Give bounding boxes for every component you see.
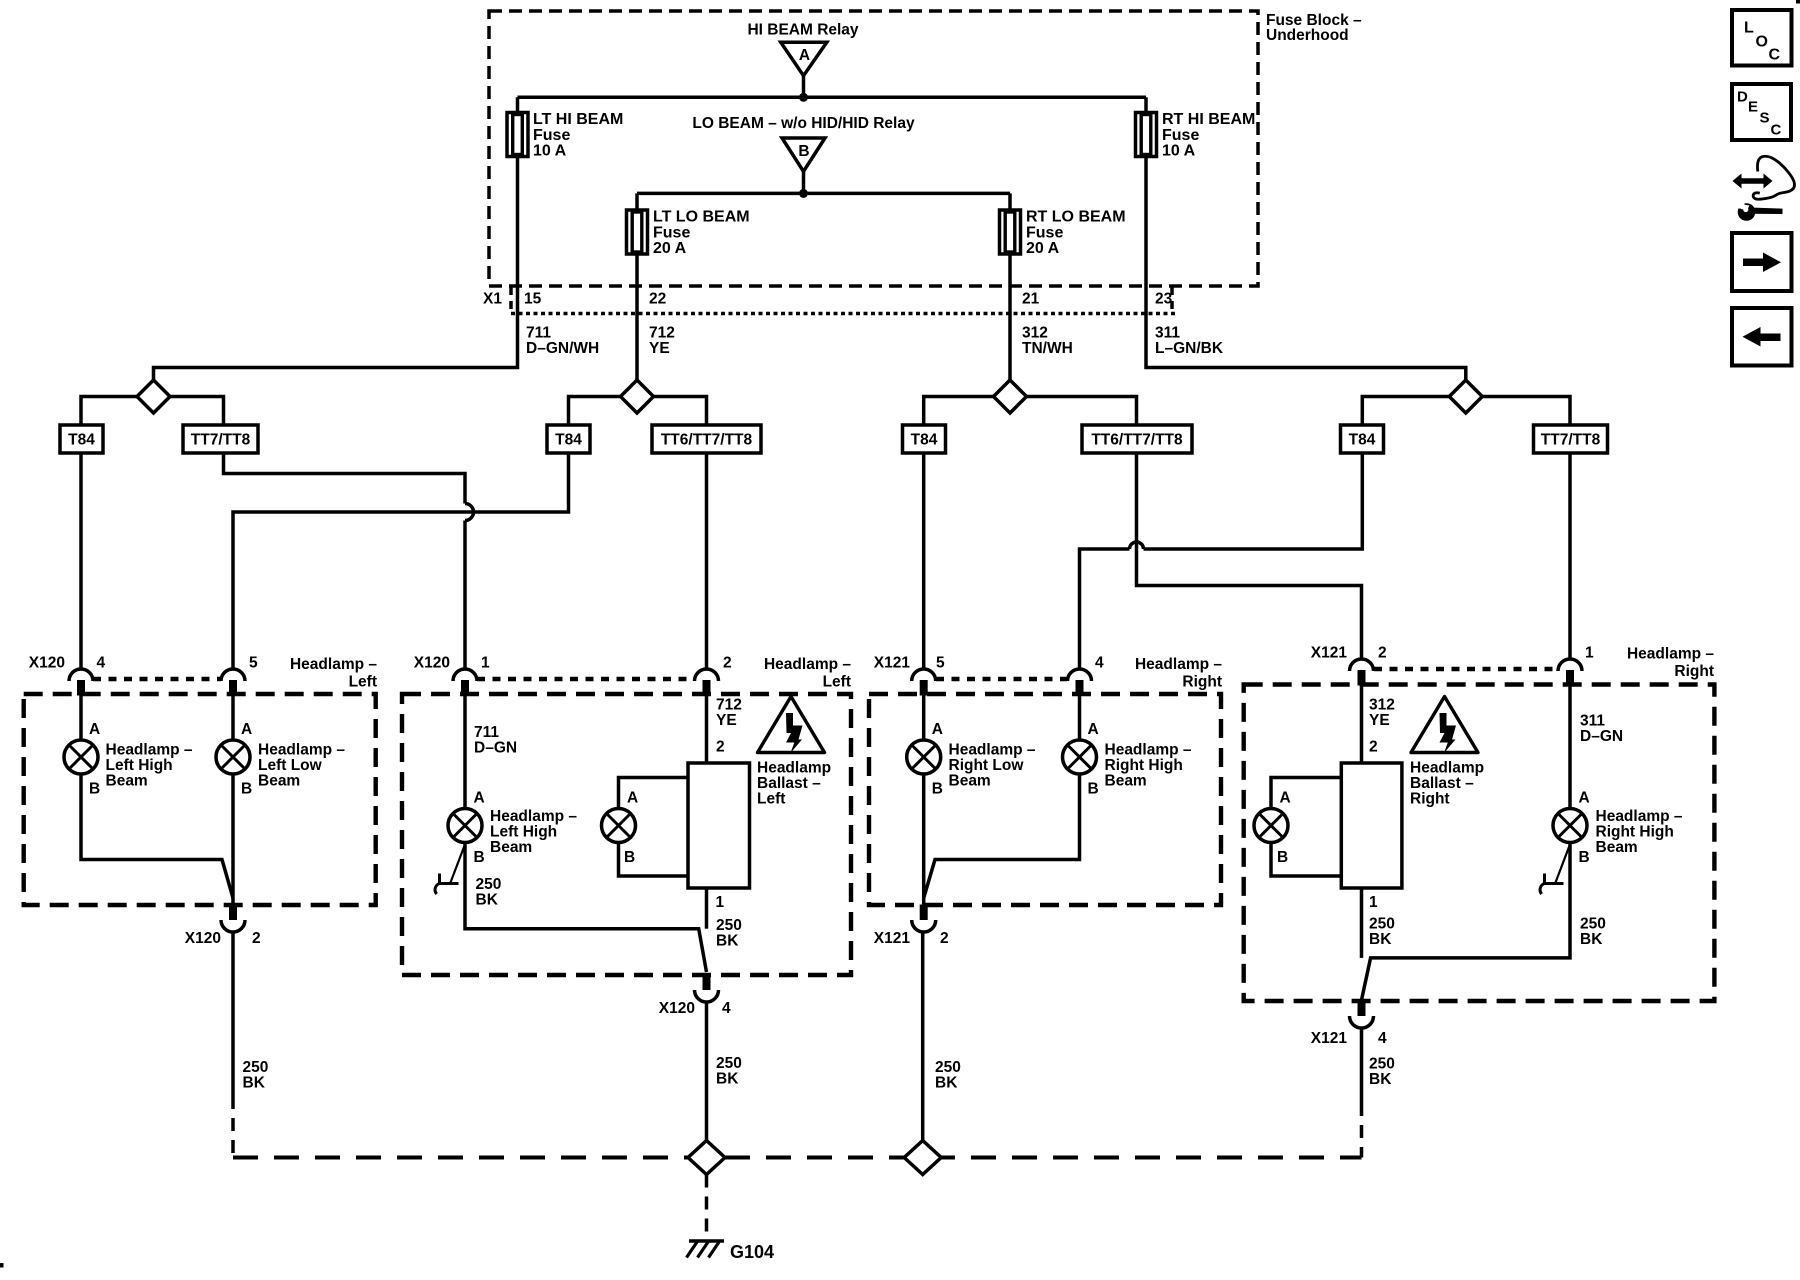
fuse RT HI BEAM 10 A — [1136, 113, 1157, 157]
connector dotted line X120 (row A) — [93, 677, 221, 682]
svg-text:Right Low: Right Low — [949, 757, 1025, 774]
connector X1 bracket right — [1170, 287, 1174, 313]
svg-text:LT LO BEAM: LT LO BEAM — [653, 209, 750, 226]
ballast label Headlamp Ballast Right — [1410, 760, 1484, 808]
wire 250 BK label (X120-2) — [243, 1059, 269, 1092]
ballast Headlamp Ballast Right — [1341, 763, 1402, 888]
svg-text:4: 4 — [722, 1000, 731, 1017]
svg-text:A: A — [474, 790, 485, 807]
warning triangle (right ballast) — [1411, 697, 1478, 754]
splice diamond 712 — [621, 380, 654, 413]
svg-text:O: O — [1756, 33, 1768, 50]
svg-text:Fuse: Fuse — [1162, 127, 1199, 144]
wire X121-2 ground lead — [921, 932, 925, 1141]
svg-text:X120: X120 — [185, 930, 221, 947]
fuse block underhood dashed box — [489, 11, 1258, 286]
svg-text:LT HI BEAM: LT HI BEAM — [533, 111, 623, 128]
svg-text:D–GN/WH: D–GN/WH — [526, 340, 599, 357]
svg-text:22: 22 — [649, 291, 666, 308]
svg-text:B: B — [932, 781, 943, 798]
wire hi-beam rail — [518, 96, 1147, 100]
wire 712 YE label — [649, 325, 675, 358]
svg-text:Beam: Beam — [949, 773, 991, 790]
svg-text:BK: BK — [476, 892, 499, 909]
branch box T84 (right high halogen) — [1341, 425, 1384, 453]
svg-text:5: 5 — [936, 655, 945, 672]
wire X120-2 dashed to ground bus — [231, 1096, 235, 1158]
wire 311 L-GN/BK label — [1155, 325, 1224, 358]
branch box T84 (left high halogen) — [60, 425, 103, 453]
svg-text:LO BEAM – w/o HID/HID Relay: LO BEAM – w/o HID/HID Relay — [692, 115, 915, 132]
svg-text:S: S — [1760, 110, 1770, 127]
branch box TT7/TT8 (right high HID) — [1534, 425, 1608, 453]
svg-text:1: 1 — [1585, 645, 1594, 662]
svg-text:A: A — [241, 721, 252, 738]
wire 250 BK label (left high lamp) — [476, 876, 502, 909]
svg-text:250: 250 — [716, 1055, 742, 1072]
svg-text:Headlamp –: Headlamp – — [290, 656, 377, 673]
svg-text:X1: X1 — [483, 291, 502, 308]
wire RT HI BEAM feed (fuse 23) — [1144, 97, 1148, 313]
svg-text:4: 4 — [97, 655, 106, 672]
fuse RT LO BEAM 20 A — [1000, 210, 1021, 254]
svg-text:4: 4 — [1378, 1030, 1387, 1047]
svg-text:Headlamp: Headlamp — [757, 760, 831, 777]
wire 311 to splice — [1146, 313, 1466, 381]
svg-text:B: B — [798, 143, 809, 160]
svg-text:Right High: Right High — [1596, 824, 1674, 841]
wire TT6/TT7/TT8 to connector X120-2 — [705, 453, 709, 669]
pigtail hook (left high lamp) — [435, 843, 465, 894]
lamp Headlamp Right High Beam (HID) — [1553, 809, 1587, 843]
svg-text:Left High: Left High — [490, 824, 557, 841]
icon LOC box — [1732, 10, 1792, 66]
svg-text:L–GN/BK: L–GN/BK — [1155, 340, 1224, 357]
svg-text:2: 2 — [940, 930, 949, 947]
component label Headlamp Left (box2) — [764, 656, 851, 691]
svg-text:Headlamp –: Headlamp – — [949, 742, 1036, 759]
svg-text:T84: T84 — [555, 432, 582, 449]
connector X121 pin 5 — [912, 669, 936, 696]
svg-text:2: 2 — [1378, 645, 1387, 662]
svg-text:Ballast –: Ballast – — [1410, 775, 1474, 792]
svg-text:YE: YE — [716, 712, 737, 729]
wire LT LO BEAM feed (fuse 22) — [635, 193, 639, 313]
connector X121 pin 2 (bottom) — [912, 905, 936, 933]
svg-text:L: L — [1744, 20, 1754, 37]
lamp Headlamp Left High Beam (HID) — [448, 809, 482, 843]
svg-text:311: 311 — [1155, 325, 1180, 342]
connector dotted line X121 (row D) — [1374, 667, 1558, 672]
svg-text:RT LO BEAM: RT LO BEAM — [1026, 209, 1126, 226]
wire 312 branch to T84 — [924, 397, 994, 426]
wire 711 branch to T84 left — [81, 397, 137, 426]
svg-text:312: 312 — [1022, 325, 1048, 342]
svg-text:A: A — [1088, 721, 1099, 738]
svg-text:B: B — [1579, 849, 1590, 866]
svg-text:T84: T84 — [68, 432, 95, 449]
wire 250 BK label (X121-2) — [935, 1059, 961, 1092]
wire 250 BK label (right high lamp) — [1580, 916, 1606, 949]
svg-text:Left High: Left High — [106, 757, 173, 774]
wire X120-4 ground lead — [705, 1002, 709, 1141]
lamp Headlamp Left Low Beam — [216, 740, 250, 774]
branch box TT7/TT8 (left high HID) — [183, 425, 258, 453]
wire LT HI BEAM feed (fuse 15) — [516, 97, 520, 313]
ballast label Headlamp Ballast Left — [757, 760, 831, 808]
relay contact A (HI BEAM Relay) — [781, 42, 827, 75]
wire 712 branch to T84 — [569, 397, 621, 426]
svg-text:2: 2 — [1369, 739, 1378, 756]
icon service wrench — [1735, 199, 1782, 220]
wire 312 branch to TT6/TT7/TT8 — [1027, 397, 1137, 426]
svg-text:YE: YE — [649, 340, 670, 357]
svg-text:312: 312 — [1369, 697, 1395, 714]
svg-text:711: 711 — [474, 724, 499, 741]
svg-text:Right High: Right High — [1105, 757, 1183, 774]
igniter lamp A wire (left ballast) — [619, 778, 689, 809]
svg-text:A: A — [1280, 790, 1291, 807]
svg-text:1: 1 — [481, 655, 490, 672]
lamp label Headlamp Left Low Beam — [258, 742, 345, 790]
wire 712 YE label (box2) — [716, 697, 742, 730]
svg-text:2: 2 — [716, 739, 725, 756]
pigtail hook (right high lamp) — [1540, 843, 1570, 894]
wire X121-4 dashed to ground bus — [1360, 1103, 1364, 1158]
wire left high beam B to low beam return — [81, 774, 233, 898]
wire X120-4 to left high beam lamp — [79, 695, 83, 740]
wire left high beam B to X120-4 — [465, 843, 707, 973]
svg-text:250: 250 — [716, 917, 742, 934]
warning triangle (left ballast) — [758, 697, 825, 754]
svg-text:2: 2 — [252, 930, 261, 947]
svg-text:BK: BK — [1369, 931, 1392, 948]
splice diamond 711 — [137, 380, 170, 413]
wire 311 branch to T84 — [1362, 397, 1449, 426]
svg-text:B: B — [1277, 849, 1288, 866]
splice diamond ground (right) — [904, 1141, 941, 1175]
svg-text:Headlamp –: Headlamp – — [764, 656, 851, 673]
connector X121 pin 1 — [1558, 659, 1582, 686]
svg-text:BK: BK — [716, 1071, 739, 1088]
page corner mark top right — [1796, 0, 1800, 4]
wire X120-1 to left high beam HID lamp — [463, 695, 467, 809]
igniter lamp A wire (right ballast) — [1271, 778, 1341, 809]
page mark bottom left — [0, 1263, 4, 1268]
headlamp left dashed box (HID ballast) — [402, 694, 851, 975]
splice diamond 311 — [1449, 380, 1482, 413]
svg-text:Fuse: Fuse — [533, 127, 570, 144]
fuse LT HI BEAM label — [533, 111, 623, 160]
wire X120-2 ground lead — [231, 932, 235, 1096]
connector X120 pin 2 (top) — [695, 669, 719, 696]
lamp label Headlamp Left High Beam — [106, 742, 193, 790]
svg-text:21: 21 — [1022, 291, 1040, 308]
svg-text:TT6/TT7/TT8: TT6/TT7/TT8 — [661, 432, 753, 449]
svg-text:Underhood: Underhood — [1266, 27, 1349, 44]
svg-text:TT7/TT8: TT7/TT8 — [1541, 432, 1601, 449]
wire T84 to connector X120-4 — [79, 453, 83, 669]
svg-text:Left Low: Left Low — [258, 757, 323, 774]
svg-text:Headlamp –: Headlamp – — [258, 742, 345, 759]
wire 712 branch to TT6/TT7/TT8 — [654, 397, 707, 426]
svg-text:X120: X120 — [414, 655, 450, 672]
ground bus dashed — [233, 1156, 1362, 1160]
connector X1 dotted line — [511, 312, 1176, 316]
fuse LT HI BEAM 10 A — [507, 113, 528, 157]
wire X120-2 to ballast pin 2 — [705, 695, 709, 763]
svg-text:Beam: Beam — [1105, 773, 1147, 790]
wire 311 branch to TT7/TT8 — [1482, 397, 1570, 426]
svg-text:1: 1 — [1369, 894, 1378, 911]
svg-text:BK: BK — [243, 1075, 266, 1092]
connector X121 pin 2 (top) — [1350, 659, 1374, 686]
ground G104 — [687, 1241, 725, 1258]
svg-text:15: 15 — [524, 291, 542, 308]
junction dot hi-beam rail — [799, 93, 808, 102]
wire 711 D-GN/WH label — [526, 325, 599, 358]
svg-text:Headlamp –: Headlamp – — [1596, 808, 1683, 825]
svg-text:311: 311 — [1580, 713, 1605, 730]
wire 250 BK label (ballast left) — [716, 917, 742, 950]
svg-text:Left: Left — [349, 674, 377, 691]
svg-text:712: 712 — [649, 325, 675, 342]
svg-text:A: A — [932, 721, 943, 738]
wire TT7/TT8 to connector X121-1 — [1568, 453, 1572, 659]
svg-text:D–GN: D–GN — [1580, 728, 1623, 745]
svg-text:Left: Left — [757, 791, 785, 808]
svg-text:X121: X121 — [1311, 1030, 1348, 1047]
branch box TT6/TT7/TT8 (right low HID) — [1082, 425, 1192, 453]
connector X120 pin 2 (bottom) — [221, 905, 245, 933]
svg-text:20 A: 20 A — [653, 240, 687, 257]
svg-text:X121: X121 — [874, 930, 911, 947]
svg-text:711: 711 — [526, 325, 551, 342]
headlamp left dashed box (bulbs) — [24, 694, 376, 905]
svg-text:2: 2 — [723, 655, 732, 672]
wire X121-2 to ballast pin 2 — [1360, 685, 1364, 763]
svg-text:D: D — [1737, 89, 1748, 106]
svg-text:BK: BK — [1369, 1071, 1392, 1088]
svg-text:1: 1 — [716, 894, 725, 911]
svg-text:X120: X120 — [659, 1000, 695, 1017]
relay contact B (LO BEAM Relay) — [782, 138, 825, 171]
connector X120 pin 5 — [221, 669, 245, 696]
svg-text:23: 23 — [1155, 291, 1173, 308]
svg-text:A: A — [799, 47, 810, 64]
svg-text:5: 5 — [249, 655, 258, 672]
junction dot lo-beam rail — [799, 189, 808, 198]
svg-text:Beam: Beam — [106, 773, 148, 790]
fuse LT LO BEAM 20 A — [627, 210, 648, 254]
svg-text:G104: G104 — [730, 1242, 774, 1262]
svg-text:TT7/TT8: TT7/TT8 — [191, 432, 251, 449]
svg-text:B: B — [624, 849, 635, 866]
svg-text:BK: BK — [1580, 931, 1603, 948]
fuse RT LO BEAM label — [1026, 209, 1126, 258]
connector dotted line X120 (row B) — [477, 677, 694, 682]
branch box TT6/TT7/TT8 (left low HID) — [652, 425, 761, 453]
svg-text:Left: Left — [823, 674, 851, 691]
svg-text:250: 250 — [1369, 1056, 1395, 1073]
svg-text:Headlamp –: Headlamp – — [1105, 742, 1192, 759]
wire relay B stub — [802, 171, 806, 195]
wire 711 D-GN label (box2) — [474, 724, 517, 757]
svg-text:Right: Right — [1182, 674, 1222, 691]
svg-text:T84: T84 — [911, 432, 938, 449]
svg-text:B: B — [1088, 781, 1099, 798]
lamp label Headlamp Right High Beam (HID) — [1596, 808, 1683, 856]
svg-text:Right: Right — [1410, 791, 1450, 808]
svg-text:X121: X121 — [1311, 645, 1348, 662]
headlamp right dashed box (bulbs) — [869, 694, 1221, 905]
icon service double arrow — [1733, 174, 1773, 189]
svg-text:B: B — [89, 781, 100, 798]
wire right high beam B to X121-4 — [1362, 843, 1571, 1001]
svg-text:YE: YE — [1369, 712, 1390, 729]
wire T84 to connector X121-5 — [922, 453, 926, 669]
icon arrow next box — [1732, 233, 1792, 291]
svg-text:4: 4 — [1095, 655, 1104, 672]
svg-text:250: 250 — [1369, 916, 1395, 933]
wire 250 BK label (X120-4) — [716, 1055, 742, 1088]
svg-text:T84: T84 — [1349, 432, 1376, 449]
svg-text:10 A: 10 A — [533, 143, 567, 160]
svg-text:A: A — [1579, 790, 1590, 807]
icon arrow back box — [1732, 308, 1792, 366]
wire relay A stub — [802, 75, 806, 98]
svg-text:10 A: 10 A — [1162, 143, 1196, 160]
wire right low beam B to X121-2 — [922, 774, 926, 905]
headlamp right dashed box (HID ballast) — [1244, 685, 1715, 1002]
svg-text:Headlamp –: Headlamp – — [106, 742, 193, 759]
splice diamond ground (left) — [688, 1141, 725, 1175]
svg-text:250: 250 — [243, 1059, 269, 1076]
svg-text:712: 712 — [716, 697, 742, 714]
svg-text:HI BEAM Relay: HI BEAM Relay — [747, 22, 858, 39]
lamp Headlamp Right Low Beam — [907, 740, 941, 774]
connector X120 pin 4 — [69, 669, 93, 696]
svg-text:Headlamp –: Headlamp – — [1135, 656, 1222, 673]
wire 712 to splice — [635, 313, 639, 381]
svg-text:Fuse: Fuse — [1026, 225, 1063, 242]
igniter lamp B wire (right ballast) — [1271, 843, 1341, 877]
wire ballast pin 1 down — [705, 888, 709, 929]
wire left low beam B to X120-2 — [231, 774, 235, 905]
lamp igniter (right ballast) — [1254, 809, 1288, 843]
wire X121-1 to right high beam HID lamp — [1568, 685, 1572, 809]
svg-text:BK: BK — [716, 933, 739, 950]
wire 312 TN/WH label — [1022, 325, 1073, 358]
svg-text:TT6/TT7/TT8: TT6/TT7/TT8 — [1091, 432, 1183, 449]
wire 311 D-GN label (box4) — [1580, 713, 1623, 746]
component label Headlamp Right (box3) — [1135, 656, 1222, 691]
lamp Headlamp Right High Beam — [1063, 740, 1097, 774]
svg-text:Beam: Beam — [258, 773, 300, 790]
svg-text:Right: Right — [1674, 663, 1714, 680]
wire TT6/TT7/TT8 to connector X121-2 — [1137, 453, 1362, 659]
fuse block label — [1266, 12, 1362, 44]
component label Headlamp Left (box1) — [290, 656, 377, 691]
wire 312 to splice — [1008, 313, 1012, 381]
ballast Headlamp Ballast Left — [688, 763, 750, 888]
svg-text:E: E — [1748, 99, 1758, 116]
icon DESC box — [1732, 84, 1791, 140]
wire X120-5 to left low beam lamp — [231, 695, 235, 740]
wire X121-5 to right low beam lamp — [922, 695, 926, 740]
svg-text:250: 250 — [935, 1059, 961, 1076]
svg-text:Beam: Beam — [490, 839, 532, 856]
connector X120 pin 4 (bottom) — [695, 975, 719, 1003]
svg-text:Ballast –: Ballast – — [757, 775, 821, 792]
svg-text:Fuse: Fuse — [653, 225, 690, 242]
branch box T84 (right low halogen) — [903, 425, 946, 453]
fuse RT HI BEAM label — [1162, 111, 1255, 160]
wire 711 branch to TT7/TT8 — [170, 397, 224, 426]
svg-text:250: 250 — [1580, 916, 1606, 933]
wire lo-beam rail — [637, 192, 1010, 196]
svg-text:Headlamp –: Headlamp – — [490, 808, 577, 825]
connector X1 bracket left — [509, 287, 513, 313]
wire 312 YE label (box4) — [1369, 697, 1395, 730]
component label Headlamp Right (box4) — [1627, 646, 1714, 681]
wire 250 BK label (X121-4) — [1369, 1056, 1395, 1089]
lamp Headlamp Left High Beam — [64, 740, 98, 774]
lamp label Headlamp Left High Beam (HID) — [490, 808, 577, 856]
branch box T84 (left low halogen) — [547, 425, 590, 453]
connector X121 pin 4 (bottom) — [1350, 1001, 1374, 1029]
wire right high beam B to return — [924, 774, 1080, 898]
svg-text:BK: BK — [935, 1075, 958, 1092]
icon service panel outline — [1753, 156, 1794, 199]
svg-text:B: B — [241, 781, 252, 798]
svg-text:20 A: 20 A — [1026, 240, 1060, 257]
wire RT LO BEAM feed (fuse 21) — [1008, 193, 1012, 313]
connector X121 pin 4 — [1068, 669, 1092, 696]
wire T84 to connector X120-5 — [233, 453, 569, 669]
svg-text:D–GN: D–GN — [474, 740, 517, 757]
wire 250 BK label (ballast right) — [1369, 916, 1395, 949]
wire X121-4 to right high beam lamp — [1078, 695, 1082, 740]
lamp label Headlamp Right High Beam — [1105, 742, 1192, 790]
svg-text:B: B — [474, 849, 485, 866]
connector X120 pin 1 — [453, 669, 477, 696]
wire TT7/TT8 to connector X120-1 — [224, 453, 474, 669]
wire dashed drop to G104 — [705, 1175, 709, 1240]
svg-text:Beam: Beam — [1596, 839, 1638, 856]
svg-text:A: A — [627, 790, 638, 807]
svg-text:X120: X120 — [29, 655, 65, 672]
svg-text:Headlamp –: Headlamp – — [1627, 646, 1714, 663]
svg-text:C: C — [1771, 122, 1782, 139]
igniter lamp B wire (left ballast) — [619, 843, 689, 877]
svg-text:RT HI BEAM: RT HI BEAM — [1162, 111, 1255, 128]
wire ballast pin 1 down (right) — [1360, 888, 1364, 958]
fuse LT LO BEAM label — [653, 209, 750, 258]
connector dotted line X121 (row C) — [936, 677, 1067, 682]
lamp igniter (left ballast) — [602, 809, 636, 843]
splice diamond 312 — [994, 380, 1027, 413]
svg-text:250: 250 — [476, 876, 502, 893]
svg-text:Headlamp: Headlamp — [1410, 760, 1484, 777]
svg-text:TN/WH: TN/WH — [1022, 340, 1073, 357]
lamp label Headlamp Right Low Beam — [949, 742, 1036, 790]
wire 711 to splice — [154, 313, 518, 381]
svg-text:A: A — [89, 721, 100, 738]
wire X121-4 ground lead — [1360, 1028, 1364, 1103]
svg-text:C: C — [1769, 47, 1781, 64]
wire T84 to connector X121-4 (with hop) — [1080, 453, 1363, 669]
